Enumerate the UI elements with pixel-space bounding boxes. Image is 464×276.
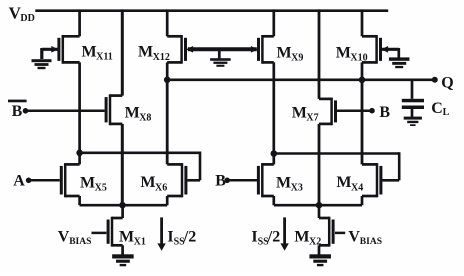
svg-text:X8: X8: [139, 113, 151, 124]
svg-text:X12: X12: [153, 52, 170, 63]
svg-text:X1: X1: [134, 237, 146, 248]
wire D2 to MX3 drain: [272, 154, 275, 165]
node B-bar input: [23, 108, 29, 114]
node left tail: [119, 202, 126, 209]
label ISS/2 left: [167, 229, 196, 248]
node A input: [26, 178, 32, 184]
wire B-bar to MX8 gate: [26, 110, 105, 113]
wire gate drop to ground: [218, 49, 221, 58]
current arrow ISS/2 right: [280, 217, 288, 250]
svg-text:M: M: [292, 105, 307, 122]
svg-text:/2: /2: [183, 229, 196, 246]
svg-text:X3: X3: [291, 183, 303, 194]
wire MX5 source drop: [78, 196, 81, 205]
transistor MX4: [336, 163, 381, 197]
label VBIAS right: [348, 229, 382, 247]
wire MX10 source to node Q line: [361, 62, 364, 79]
transistor MX6: [140, 163, 186, 197]
node D2: [271, 150, 278, 157]
ground (MX10 gate): [389, 57, 410, 68]
wire MX11 gate lead: [42, 48, 59, 51]
wire VBIAS to MX1 gate: [92, 232, 107, 235]
wire A to MX5 gate: [29, 179, 60, 182]
label CL: [431, 100, 449, 118]
svg-text:M: M: [82, 43, 97, 60]
svg-text:B: B: [12, 103, 23, 120]
wire MX1 source drop: [121, 245, 124, 254]
svg-text:M: M: [276, 175, 291, 192]
wire B to MX3 gate: [227, 179, 257, 182]
label VDD: [9, 4, 35, 24]
wire D2 rail down to MX4 gate: [398, 152, 401, 180]
wire node P down to MX6 drain: [166, 80, 169, 165]
svg-text:V: V: [348, 229, 360, 246]
node MX10 drain junction: [359, 77, 366, 84]
svg-text:M: M: [336, 174, 351, 191]
wire node D2 rail: [274, 152, 399, 155]
wire node D1 rail: [80, 152, 200, 155]
svg-text:V: V: [58, 229, 70, 246]
wire MX10 gate lead: [382, 48, 399, 51]
wire MX7 source to tail node: [318, 124, 321, 205]
ground (MX1 source): [112, 254, 133, 266]
wire MX3 source drop: [272, 196, 275, 205]
wire right tail rail: [274, 204, 362, 207]
svg-text:M: M: [294, 229, 309, 246]
wire VDD to MX7 drain: [318, 9, 321, 99]
wire shared gate MX12-MX9: [188, 47, 257, 51]
wire D1 to MX5 drain: [78, 153, 81, 165]
wire VDD to MX11 drain: [78, 9, 81, 36]
wire MX8 source to tail node: [121, 124, 124, 205]
node Q: [432, 77, 438, 83]
svg-text:M: M: [119, 229, 134, 246]
wire left tail rail: [80, 204, 168, 207]
wire MX9 source to node D2: [272, 62, 275, 153]
svg-text:M: M: [125, 105, 140, 122]
wire node down to MX4 drain: [361, 80, 364, 165]
wire VDD to MX10 drain: [361, 9, 364, 36]
capacitor CL: [402, 80, 424, 117]
svg-text:BIAS: BIAS: [69, 237, 91, 247]
ground (MX12/MX9 gates): [210, 58, 231, 67]
svg-text:L: L: [443, 107, 450, 118]
current arrow ISS/2 left: [157, 217, 165, 250]
transistor MX11: [51, 35, 112, 64]
transistor MX12: [138, 35, 193, 64]
svg-text:X10: X10: [350, 53, 367, 64]
svg-text:X4: X4: [351, 182, 363, 193]
svg-text:X11: X11: [96, 52, 113, 63]
wire output node to Q: [167, 78, 435, 81]
svg-text:M: M: [336, 45, 351, 62]
transistor MX7: [292, 98, 336, 126]
svg-text:C: C: [431, 100, 443, 117]
label ISS/2 right: [251, 229, 280, 248]
node B input middle: [224, 178, 230, 184]
svg-text:M: M: [138, 44, 153, 61]
wire MX6 source drop: [166, 196, 169, 205]
node B input right: [369, 108, 375, 114]
wire D1 rail down to MX6 gate: [199, 152, 202, 181]
svg-text:X6: X6: [155, 182, 167, 193]
svg-text:M: M: [80, 175, 95, 192]
svg-text:X5: X5: [95, 183, 107, 194]
svg-text:A: A: [13, 173, 25, 190]
power rail VDD: [35, 9, 388, 12]
wire MX4 gate lead: [382, 179, 399, 182]
svg-text:X9: X9: [291, 53, 303, 64]
wire VDD to MX9 drain: [272, 9, 275, 36]
wire MX12 source to node P: [166, 62, 169, 79]
wire MX4 source drop: [361, 196, 364, 205]
ground (MX2 source): [309, 254, 331, 266]
svg-text:/2: /2: [267, 229, 280, 246]
svg-text:M: M: [277, 45, 292, 62]
ground (CL): [404, 117, 422, 126]
transistor MX8: [106, 94, 151, 125]
transistor MX5: [61, 163, 107, 197]
label B-bar overline: [8, 100, 27, 103]
transistor MX1: [108, 217, 146, 248]
svg-text:Q: Q: [441, 75, 453, 92]
label VBIAS left: [58, 229, 92, 247]
wire tail node to MX2 drain: [318, 205, 321, 218]
transistor MX9: [251, 35, 303, 64]
wire MX6 gate lead: [187, 179, 200, 182]
transistor MX10: [336, 35, 388, 64]
node MX12 drain junction: [164, 77, 171, 84]
wire MX2 source drop: [318, 245, 321, 254]
svg-text:DD: DD: [20, 13, 34, 24]
wire MX2 gate lead: [335, 232, 345, 235]
wire MX7 gate lead to B: [337, 109, 372, 112]
svg-text:M: M: [140, 174, 155, 191]
svg-text:B: B: [379, 104, 390, 121]
wire VDD to MX8 drain: [121, 9, 124, 95]
node D1: [76, 150, 83, 157]
transistor MX2: [294, 217, 333, 248]
wire VDD to MX12 drain: [166, 9, 169, 36]
svg-text:X7: X7: [306, 113, 318, 124]
wire gate drop to ground right: [397, 48, 400, 58]
wire MX11 source to node D1: [78, 62, 81, 152]
ground (MX11 gate): [32, 59, 52, 69]
svg-text:BIAS: BIAS: [360, 237, 382, 247]
wire tail node to MX1 drain: [121, 205, 124, 218]
transistor MX3: [258, 163, 302, 197]
wire gate lead drop to ground: [40, 48, 43, 59]
node right tail: [316, 202, 323, 209]
